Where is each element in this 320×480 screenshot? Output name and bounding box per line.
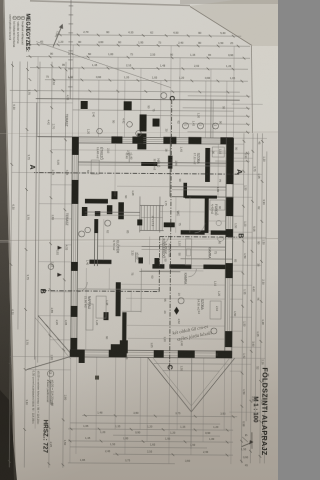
partition wall x271 mid [139,270,180,272]
notes list line 2 [17,16,21,20]
dark blob x312-320 y167-172 [103,312,108,320]
hall partition y117 [159,197,161,233]
terrace bubble b [127,122,133,128]
dark bar wall y156-161 x282-316 [116,282,121,316]
small diamond mark [174,307,179,315]
small pier right of building [95,376,99,380]
site boundary line with cross ticks [69,0,72,99]
bathtub [210,200,225,210]
left dimension ladder [56,35,241,36]
stair well walls [140,204,164,206]
partition wall x212 lower [85,211,140,213]
interior wall y179-182 [96,219,98,266]
interior wall vertical x196 [172,196,233,198]
wc bowl [218,237,224,241]
partition wall x258 upper [180,258,232,260]
bed 1 [210,301,221,319]
porch apex extension [190,412,192,449]
fold crease lines across sheet [0,239,278,241]
bubble corridor [85,227,91,233]
level legend symbol [47,370,53,376]
section line C-C horizontal [170,100,172,371]
bottom exterior wall (double line) [71,137,73,357]
wardrobe [212,147,224,157]
north arrow [242,442,254,447]
dark table edge at left of photo [0,0,14,480]
door swing arc 4 [188,269,196,277]
site boundary diagonal near bottom-right of building [38,316,74,357]
partition wall x187 upper [172,186,226,188]
partition wall x247 (double) [142,245,226,248]
extension lines from building to left ladder [232,46,235,138]
extension lines from building to right ladder [230,358,233,464]
sofa [86,304,93,330]
bottom-right corner walls [79,352,85,363]
folded sheet flap at right edge [252,46,278,131]
extension lines from building to bottom ladder [12,101,72,103]
dark bar x205-214 y165-170 [107,205,113,214]
section line B-B cranked [42,290,159,293]
bed 2 [96,296,106,318]
interior wall x260-264 vertical [89,260,111,264]
terrace outer edge bottom [35,103,37,360]
notes list line 1 [21,16,25,20]
slope arrow symbol [53,25,62,47]
entry porch triangle [147,357,234,412]
door swing arc 2 [160,236,169,245]
door swing arc 3 [77,282,87,292]
interior load wall x264-268 [203,265,225,270]
bubble hall [105,220,111,226]
bubble room2 [211,328,217,334]
entry dark bar x191-199 [111,191,117,199]
dark bar wall y150-154 x312-340 [122,312,126,340]
opening id bubbles column [212,123,218,129]
small blob b [154,258,159,265]
small blob a [138,257,143,263]
interior guide lines [210,150,226,152]
road slope arrow line [36,42,171,88]
dark bar x207-216 y190-195 [82,207,88,216]
terrace wall bar upper [139,114,146,131]
kitchen counter [185,239,191,265]
door swing arc 1 [195,223,205,233]
porch steps [154,363,229,366]
partition x311 vertical [122,310,141,312]
dark bar wardrobe y153-159 [118,202,124,219]
interior wall bar y67-72 right part [204,198,208,233]
corridor blob [95,211,101,216]
bubble lower ladder [48,264,54,270]
washbasin [216,220,221,225]
terrace bubble c [136,131,142,137]
stair side wall dark [164,222,175,227]
upper-left partial dim lines [188,95,250,97]
folded corner edge line [190,7,252,46]
dark corner block x340-353 [120,340,128,353]
vignette shading [0,230,278,480]
extension lines from building to top ladder [232,103,263,105]
interior dark wall x199-204 [85,199,108,204]
bubble near top-left [161,93,167,99]
entry walkway double line [212,100,214,138]
right dimension ladder [82,415,237,416]
left wall masonry segments [220,137,233,144]
terrace pier 2 [81,101,88,109]
terrace chimney block [153,119,160,127]
bubble terrace [79,231,85,237]
table [91,160,99,174]
interior wall vertical x231 (dark) [211,230,231,235]
shaded background beyond folded paper corner [190,0,278,46]
bottom wall masonry segments [72,137,79,155]
partition y135 x268-312 [140,268,142,312]
stair corner block [137,219,142,225]
right exterior wall (double line) [71,350,232,351]
interior wall y105-109 [169,138,171,197]
terrace edge line [36,99,240,101]
section line A-A vertical [34,173,239,175]
right wall masonry segments [216,351,232,359]
notes list line 3 [13,16,17,20]
interior wall bar y67-72 left part [205,148,210,182]
interior wall y90-94 [183,183,187,198]
kitchen sink [187,249,191,256]
top exterior wall (double line) [232,138,234,358]
level marker triangle 1 [58,246,63,250]
bottom dimension ladder [63,62,66,468]
handwritten pencil note (portrait orientation) [172,324,213,343]
stair flight arrow [141,216,163,218]
bubble kitchen [178,298,184,304]
terrace pier 1 [124,101,132,110]
top wall masonry segments [226,138,234,184]
stair treads [161,206,163,231]
partition wall x163 (double) [78,162,226,163]
terrace bubble a [97,128,103,134]
left exterior wall (double line) [37,137,233,139]
top dimension ladder [264,151,266,463]
level marker triangle 2 [57,273,62,277]
partition x289 [77,288,159,291]
terrace wall bar lower [137,133,146,149]
